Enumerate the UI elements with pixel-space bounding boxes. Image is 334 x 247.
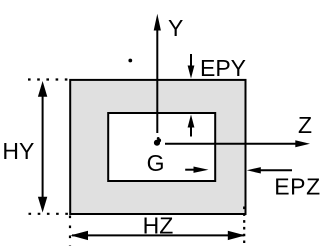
svg-text:HY: HY [2, 138, 34, 164]
dotted extension line below bottom-right corner [243, 207, 245, 244]
Z axis arrowhead [295, 140, 310, 147]
EPY down arrow above top wall [190, 54, 192, 67]
svg-text:Y: Y [168, 15, 183, 41]
EPZ left arrow outside right wall [260, 169, 292, 171]
svg-text:Z: Z [298, 112, 312, 138]
HZ dimension line [72, 234, 244, 236]
HZ right arrowhead [228, 231, 246, 240]
HY bottom arrowhead [38, 197, 47, 213]
HY dimension line [42, 93, 44, 199]
outer rectangle outline [70, 80, 245, 214]
HY top arrowhead [38, 81, 47, 97]
HZ left arrowhead [71, 231, 89, 240]
svg-text:G: G [147, 150, 165, 176]
Y axis arrowhead [154, 14, 161, 31]
svg-text:HZ: HZ [143, 212, 174, 238]
svg-text:EPY: EPY [200, 55, 246, 81]
Y axis line [156, 27, 158, 133]
centroid G dot [154, 140, 160, 146]
stray dot upper area [128, 59, 132, 63]
dotted extension line below bottom-left corner [69, 216, 71, 247]
svg-text:EPZ: EPZ [274, 174, 321, 200]
dotted extension line bottom-left [29, 213, 72, 215]
inner rectangle (hole) outline [108, 113, 215, 181]
EPZ right arrow inside hole [185, 169, 194, 171]
hollow rectangular section gray wall fill [70, 80, 245, 214]
dotted extension line top-left [28, 78, 70, 80]
EPY up arrow inside hole [190, 127, 192, 137]
Z axis line [165, 143, 298, 145]
